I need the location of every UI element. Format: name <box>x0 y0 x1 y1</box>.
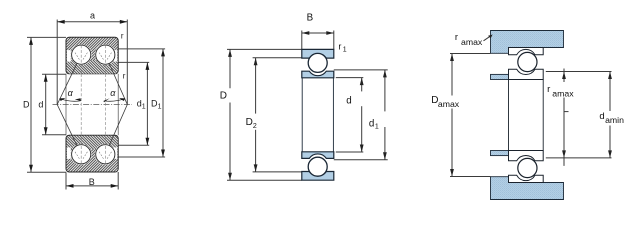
svg-text:r: r <box>338 42 341 52</box>
svg-text:D: D <box>220 91 227 102</box>
svg-text:d: d <box>599 111 604 122</box>
svg-text:B: B <box>307 13 314 24</box>
svg-text:α: α <box>110 88 116 98</box>
svg-text:B: B <box>89 177 95 187</box>
svg-text:r: r <box>547 84 550 95</box>
svg-text:amax: amax <box>552 88 574 98</box>
svg-text:amax: amax <box>438 99 460 109</box>
svg-text:amax: amax <box>461 37 483 47</box>
svg-text:r: r <box>455 32 458 43</box>
svg-text:d: d <box>38 99 43 109</box>
svg-text:d: d <box>369 118 374 129</box>
svg-text:D: D <box>246 117 253 128</box>
svg-text:1: 1 <box>142 103 146 110</box>
svg-text:r: r <box>121 32 124 41</box>
svg-text:1: 1 <box>158 103 162 110</box>
svg-text:α: α <box>68 88 74 98</box>
svg-text:amin: amin <box>605 115 624 125</box>
svg-text:r: r <box>123 72 126 81</box>
svg-text:2: 2 <box>253 123 257 130</box>
svg-text:1: 1 <box>343 46 347 53</box>
svg-text:d: d <box>346 96 351 107</box>
svg-text:1: 1 <box>375 123 379 130</box>
svg-text:a: a <box>90 11 95 21</box>
svg-text:D: D <box>23 99 30 109</box>
